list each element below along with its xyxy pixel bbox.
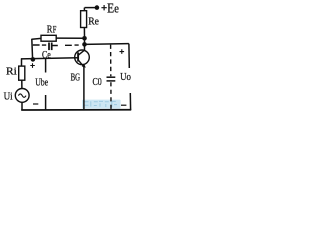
node: input junction dot <box>31 57 36 62</box>
capacitor Ce (dashed branch) <box>33 44 46 46</box>
wire: base wire (input node) <box>21 58 78 59</box>
minus sign of Uo <box>121 104 126 106</box>
svg-text:Uo: Uo <box>120 71 131 83</box>
svg-text:Re: Re <box>88 16 99 27</box>
resistor Re <box>81 11 87 28</box>
resistor Rf <box>41 35 56 41</box>
label +Ee <box>101 5 106 10</box>
capacitor C0 (dashed branch) <box>110 45 112 77</box>
wire: Ube port upper stub <box>45 58 47 72</box>
wire: emitter down to rail <box>83 67 85 110</box>
wire: source to bottom rail <box>21 102 23 110</box>
wire: Uo port upper stub <box>128 44 130 68</box>
svg-text:F: F <box>53 25 57 35</box>
wire: Ube port lower stub <box>45 95 47 110</box>
svg-text:e: e <box>114 2 119 16</box>
collector diagonal <box>78 50 84 55</box>
svg-text:C0: C0 <box>93 77 102 88</box>
node: dot1 Rf/collector <box>82 36 87 41</box>
node: +Ee terminal dot <box>95 5 100 10</box>
wire: between dots and to transistor <box>84 38 86 50</box>
resistor Ri <box>19 66 25 80</box>
svg-text:Ce: Ce <box>42 49 51 61</box>
svg-text:Ri: Ri <box>6 67 17 78</box>
wire: feedback bracket vertical <box>31 39 34 60</box>
wire: Uo port lower stub <box>129 93 131 110</box>
wire: bottom rail <box>21 109 131 111</box>
node: dot2 output <box>82 42 87 47</box>
minus sign of Ube <box>33 103 38 105</box>
svg-text:R: R <box>47 24 53 35</box>
wire: Re top to +Ee <box>83 8 85 11</box>
svg-text:Ube: Ube <box>35 77 48 88</box>
watermark <box>82 100 121 109</box>
emitter diagonal with arrow <box>78 60 84 67</box>
svg-text:E: E <box>107 2 114 17</box>
wire: output top wire <box>85 43 129 46</box>
svg-text:BG: BG <box>71 72 81 83</box>
wire: collector vertical to Re <box>83 28 85 39</box>
wire: Rf right lead <box>56 37 84 39</box>
transistor BG <box>75 50 90 65</box>
plus sign of Uo <box>120 49 125 54</box>
wire: left branch corner down to Ri <box>21 58 23 66</box>
plus sign of Ube <box>30 63 35 68</box>
wire: Rf left lead <box>32 37 41 40</box>
wire: Ri to source <box>21 80 23 89</box>
svg-text:Ui: Ui <box>4 92 13 103</box>
AC source Ui <box>15 89 29 103</box>
